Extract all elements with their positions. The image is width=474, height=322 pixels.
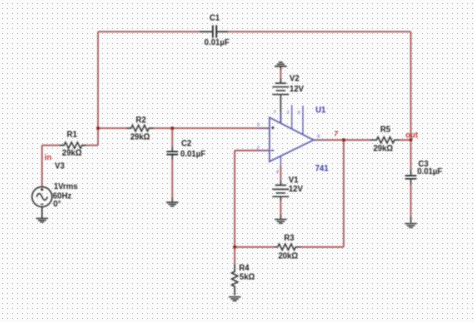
svg-text:C1: C1 bbox=[210, 14, 221, 23]
svg-text:29kΩ: 29kΩ bbox=[373, 144, 393, 153]
svg-text:1Vrms: 1Vrms bbox=[54, 182, 79, 191]
svg-text:in: in bbox=[45, 153, 52, 162]
svg-text:12V: 12V bbox=[289, 185, 304, 194]
svg-text:0°: 0° bbox=[53, 200, 61, 209]
svg-text:5: 5 bbox=[298, 110, 301, 115]
svg-text:V2: V2 bbox=[290, 74, 300, 83]
svg-text:0.01µF: 0.01µF bbox=[180, 149, 205, 158]
svg-text:20kΩ: 20kΩ bbox=[278, 252, 298, 261]
svg-text:R5: R5 bbox=[380, 125, 391, 134]
svg-text:V1: V1 bbox=[289, 176, 299, 185]
svg-text:U1: U1 bbox=[316, 105, 327, 114]
svg-text:out: out bbox=[406, 131, 419, 140]
svg-text:741: 741 bbox=[315, 164, 329, 173]
svg-text:29kΩ: 29kΩ bbox=[130, 133, 150, 142]
svg-text:4: 4 bbox=[276, 169, 279, 174]
svg-text:29kΩ: 29kΩ bbox=[62, 149, 82, 158]
svg-text:R4: R4 bbox=[239, 263, 250, 272]
svg-text:12V: 12V bbox=[290, 84, 305, 93]
svg-text:2: 2 bbox=[256, 145, 260, 150]
svg-text:R1: R1 bbox=[67, 130, 78, 139]
svg-text:0.01µF: 0.01µF bbox=[417, 167, 442, 176]
svg-text:6: 6 bbox=[317, 133, 320, 138]
svg-text:7: 7 bbox=[273, 110, 276, 115]
svg-text:1: 1 bbox=[287, 110, 290, 115]
svg-text:V3: V3 bbox=[55, 162, 65, 171]
svg-text:R2: R2 bbox=[136, 116, 147, 125]
svg-text:5kΩ: 5kΩ bbox=[240, 272, 256, 281]
svg-text:C2: C2 bbox=[181, 139, 192, 148]
svg-text:0.01µF: 0.01µF bbox=[204, 38, 229, 47]
svg-text:R3: R3 bbox=[284, 233, 295, 242]
svg-text:3: 3 bbox=[257, 122, 260, 127]
